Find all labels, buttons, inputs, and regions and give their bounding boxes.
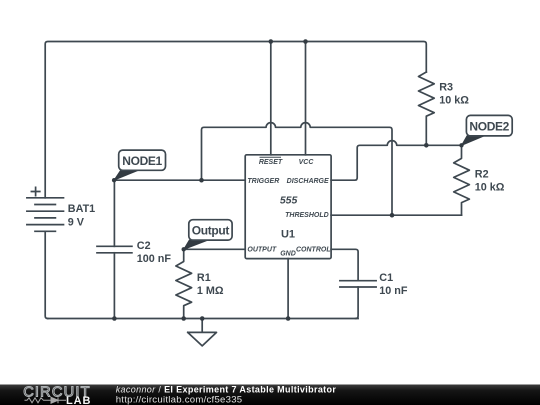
svg-text:9 V: 9 V: [68, 217, 85, 229]
svg-text:R1: R1: [197, 272, 211, 284]
svg-text:R3: R3: [439, 82, 453, 94]
node reset-rail junction: [269, 39, 274, 44]
op-amp U1 555 IC box: [245, 155, 331, 259]
node trigger junction: [199, 178, 204, 183]
svg-text:OUTPUT: OUTPUT: [247, 246, 277, 253]
node IC-gnd rail junction: [286, 316, 291, 321]
pin RESET overline: [260, 156, 282, 158]
wire NODE1 down to C2: [113, 180, 115, 246]
resistor R3: [419, 72, 435, 145]
CircuitLab logo squiggle resistor: [25, 398, 52, 403]
wire threshold pin to R2 bottom: [331, 214, 461, 216]
wire trigger-threshold link: vertical from trigger junction up, right with hops, down at x=392: [202, 123, 393, 216]
IC pin labels: [247, 157, 330, 257]
node R1 rail junction: [181, 316, 186, 321]
capacitor C2: [97, 246, 132, 253]
resistor R1: [176, 249, 192, 318]
svg-text:R2: R2: [475, 168, 489, 180]
svg-text:BAT1: BAT1: [68, 203, 95, 215]
svg-text:1 MΩ: 1 MΩ: [197, 285, 224, 297]
node Output flag: [184, 220, 232, 250]
resistor R2: [454, 145, 470, 215]
node R3 bottom junction: [424, 143, 429, 148]
wire C1 bottom to rail: [356, 287, 359, 319]
wire discharge loop: IC discharge right, up, right to node2 wire with hop over x=392: [331, 141, 426, 181]
svg-text:LAB: LAB: [66, 395, 91, 405]
wire bottom rail: [48, 318, 358, 320]
node Output attach: [182, 247, 186, 251]
wire control loop: IC control right, down to C1: [331, 249, 358, 280]
svg-text:kaconnor / EI Experiment 7 Ast: kaconnor / EI Experiment 7 Astable Multi…: [116, 385, 337, 395]
svg-text:C1: C1: [379, 272, 393, 284]
node threshold junction: [390, 213, 395, 218]
svg-text:NODE2: NODE2: [469, 120, 509, 134]
svg-text:VCC: VCC: [299, 159, 315, 166]
wire reset pin vertical: [270, 42, 272, 155]
node vcc-rail junction: [303, 39, 308, 44]
svg-text:RESET: RESET: [259, 159, 283, 166]
node C2 rail junction: [112, 316, 117, 321]
svg-text:Output: Output: [192, 224, 230, 238]
capacitor C1: [340, 281, 376, 287]
wire IC gnd pin down to rail: [287, 259, 289, 319]
node NODE1 flag: [114, 150, 165, 180]
node NODE1 attach: [112, 178, 116, 182]
svg-text:555: 555: [280, 194, 298, 206]
svg-text:TRIGGER: TRIGGER: [247, 178, 279, 185]
svg-text:http://circuitlab.com/cf5e335: http://circuitlab.com/cf5e335: [116, 394, 243, 405]
node gnd rail junction: [200, 316, 205, 321]
svg-text:10 kΩ: 10 kΩ: [475, 182, 505, 194]
ground: [188, 319, 217, 346]
svg-text:C2: C2: [137, 240, 151, 252]
wire battery bottom lead: [45, 231, 48, 318]
wire vcc pin vertical: [305, 42, 307, 155]
node NODE2 attach: [459, 143, 463, 147]
svg-text:100 nF: 100 nF: [137, 253, 172, 265]
svg-text:CONTROL: CONTROL: [296, 246, 331, 253]
svg-text:GND: GND: [280, 251, 296, 258]
wire trigger row: NODE1 to IC: [114, 179, 245, 181]
wire output row: flag to IC: [184, 248, 246, 250]
wire threshold row: R3 bottom to NODE2/R2: [426, 144, 461, 146]
svg-text:THRESHOLD: THRESHOLD: [285, 212, 329, 219]
svg-text:10 kΩ: 10 kΩ: [439, 95, 469, 107]
CircuitLab logo diode: [51, 397, 66, 403]
svg-text:U1: U1: [281, 229, 295, 241]
node NODE2 flag: [462, 115, 513, 145]
wire top rail: [45, 42, 426, 198]
battery BAT1: [27, 187, 64, 231]
svg-text:DISCHARGE: DISCHARGE: [287, 178, 329, 185]
svg-text:10 nF: 10 nF: [379, 285, 408, 297]
svg-text:NODE1: NODE1: [122, 154, 162, 168]
wire C2 bottom to rail: [113, 253, 115, 319]
component value labels: [68, 82, 505, 298]
